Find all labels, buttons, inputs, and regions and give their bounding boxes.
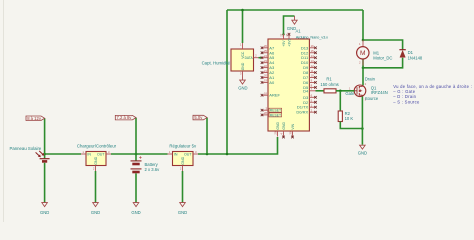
svg-text:28: 28: [264, 111, 268, 115]
svg-text:– S : Source: – S : Source: [393, 99, 420, 104]
wire riser from 5V rail to top rail: [226, 10, 228, 154]
humidity sensor Capt. Humidité: [202, 43, 259, 77]
svg-text:D0/RX: D0/RX: [296, 110, 308, 115]
op-amp U1 Arduino Nano A1: [268, 29, 328, 131]
wire to diode top: [363, 40, 403, 50]
wire sensor VCC drop: [242, 10, 244, 43]
svg-text:GND: GND: [282, 122, 286, 130]
svg-text:21: 21: [264, 69, 268, 73]
label 7.2 à 8v: [115, 115, 136, 120]
svg-text:8 à 12v: 8 à 12v: [27, 116, 42, 121]
svg-text:GND: GND: [178, 210, 187, 215]
arduino left no-connect X marks: [261, 47, 264, 117]
svg-text:Chargeur/Contrôleur: Chargeur/Contrôleur: [77, 144, 117, 149]
label 8 à 12v: [26, 116, 45, 121]
svg-text:RESET: RESET: [270, 113, 281, 117]
svg-text:13: 13: [311, 59, 315, 63]
arduino left pins A7-A0 AREF RESET: [262, 48, 268, 115]
arduino right pins D13-D0: [309, 48, 315, 112]
wire main 5V rail: [45, 153, 81, 155]
arduino bottom pins GND GND VIN: [274, 122, 295, 139]
resistor R2: [338, 111, 353, 122]
node junction top rail sensor: [241, 9, 244, 12]
svg-text:1N4148: 1N4148: [408, 55, 423, 60]
wire label 8a12v drop: [44, 118, 46, 154]
svg-text:25: 25: [264, 49, 268, 53]
wire charger to GND: [95, 171, 97, 202]
note text comment: [393, 84, 472, 104]
svg-text:+3V3: +3V3: [287, 38, 291, 46]
ground GND under charger: [93, 203, 99, 207]
solar panel Panneau Solaire: [10, 146, 50, 162]
svg-text:D4: D4: [303, 89, 309, 94]
ground GND at arduino top: [292, 16, 297, 24]
charger U2 Chargeur/Contrôleur: [77, 144, 117, 171]
node junction arduino top pin: [282, 33, 284, 35]
diode D1: [399, 50, 423, 61]
svg-text:19: 19: [264, 79, 268, 83]
svg-text:30: 30: [289, 131, 293, 135]
ground GND under mosfet: [360, 145, 366, 149]
resistor R1: [320, 77, 338, 93]
node junction battery: [135, 153, 138, 156]
svg-text:14: 14: [311, 54, 315, 58]
svg-text:10: 10: [311, 74, 315, 78]
wire arduino top pin to GND stub: [284, 16, 295, 34]
node junction gate / R2: [339, 90, 342, 93]
svg-text:RESET: RESET: [270, 109, 281, 113]
wire source down: [361, 97, 363, 145]
svg-text:Motor_DC: Motor_DC: [373, 55, 392, 60]
svg-text:R1: R1: [326, 77, 332, 82]
wire diode bottom return: [363, 58, 403, 68]
svg-text:150 ohms: 150 ohms: [320, 82, 338, 87]
ground GND under solar: [42, 203, 48, 207]
wire solar to GND: [44, 163, 46, 203]
svg-text:AREF: AREF: [269, 93, 280, 98]
wire top rail: [227, 9, 363, 11]
svg-text:20: 20: [264, 74, 268, 78]
ground GND under battery: [133, 203, 139, 207]
arduino right pin names: [296, 45, 309, 114]
svg-text:GND: GND: [181, 156, 185, 164]
label 5.0v: [193, 115, 207, 120]
wire rail regulator to arduino: [198, 137, 278, 154]
node junction riser: [226, 153, 229, 156]
svg-text:10 K: 10 K: [345, 116, 354, 121]
svg-text:Capt. Humidité: Capt. Humidité: [202, 60, 231, 65]
arduino left pin numbers: [264, 44, 268, 115]
wire motor to mosfet drain: [362, 59, 364, 85]
regulator U3 Régulateur 5v: [168, 144, 199, 171]
ground GND under sensor: [240, 77, 246, 85]
svg-text:16: 16: [311, 44, 315, 48]
svg-text:23: 23: [264, 59, 268, 63]
svg-text:Drain: Drain: [365, 77, 376, 82]
svg-text:17: 17: [285, 33, 289, 37]
svg-text:7.2 à 8v: 7.2 à 8v: [117, 115, 133, 120]
arduino top pins +5V +3V3: [280, 33, 292, 47]
svg-text:5.0v: 5.0v: [194, 115, 203, 120]
svg-text:GND: GND: [40, 210, 49, 215]
svg-text:Régulateur 5v: Régulateur 5v: [169, 144, 197, 149]
svg-text:IN: IN: [87, 153, 91, 157]
svg-text:29: 29: [274, 131, 278, 135]
motor M1: [357, 40, 393, 66]
svg-text:OUT: OUT: [97, 153, 105, 157]
svg-text:11: 11: [311, 69, 314, 73]
wire sensor data to A5: [259, 57, 262, 59]
svg-text:GND: GND: [94, 156, 98, 164]
svg-text:+5V: +5V: [282, 40, 286, 47]
svg-text:Source: Source: [365, 96, 379, 101]
svg-text:26: 26: [264, 44, 268, 48]
svg-text:27: 27: [280, 33, 284, 37]
svg-text:M: M: [360, 50, 366, 57]
svg-text:IRFZ44N: IRFZ44N: [371, 90, 388, 95]
svg-text:Panneau Solaire: Panneau Solaire: [10, 146, 42, 151]
node junction motor bottom: [362, 67, 365, 70]
wire rail charger to regulator: [111, 153, 168, 155]
arduino right pin numbers: [311, 44, 315, 112]
svg-text:2 x 3.6v: 2 x 3.6v: [145, 167, 161, 172]
svg-text:24: 24: [264, 54, 268, 58]
svg-text:GND: GND: [276, 122, 280, 130]
svg-text:15: 15: [311, 49, 315, 53]
svg-text:A0: A0: [269, 80, 275, 85]
node junction source / R2: [361, 127, 364, 130]
svg-text:GND: GND: [241, 62, 245, 70]
svg-text:12: 12: [311, 64, 315, 68]
arduino left pin names: [269, 45, 280, 97]
node junction motor top: [362, 39, 365, 42]
svg-text:DATA: DATA: [245, 56, 254, 60]
wire regulator to GND: [182, 171, 184, 202]
wire R2 bottom to source rail: [340, 122, 362, 129]
arduino right no-connect X marks: [314, 47, 317, 114]
wire label 5.0v drop: [206, 118, 208, 154]
wire label 7.2a8v drop: [135, 118, 137, 154]
svg-text:Gate: Gate: [345, 91, 355, 96]
wire battery to GND: [135, 173, 137, 202]
svg-text:IN: IN: [174, 153, 178, 157]
svg-text:A1: A1: [296, 29, 302, 34]
svg-text:22: 22: [264, 64, 268, 68]
svg-text:GND: GND: [131, 210, 140, 215]
battery BT1: [131, 154, 161, 172]
svg-text:GND: GND: [358, 151, 367, 156]
svg-text:OUT: OUT: [184, 153, 192, 157]
wire R2 top: [339, 91, 341, 111]
svg-text:18: 18: [264, 91, 268, 95]
node junction 5.0v label: [206, 153, 209, 156]
wire R1 to gate: [336, 90, 354, 92]
node junction solar: [43, 153, 46, 156]
arduino RESET boxed names: [269, 108, 282, 117]
wire motor drop: [362, 10, 364, 40]
svg-text:VIN: VIN: [291, 123, 295, 129]
ground GND under regulator: [180, 203, 186, 207]
wire arduino D4 to R1: [316, 90, 325, 92]
svg-text:GND: GND: [91, 210, 100, 215]
transistor Q1 IRFZ44N: [345, 77, 387, 102]
svg-text:GND: GND: [238, 86, 247, 91]
